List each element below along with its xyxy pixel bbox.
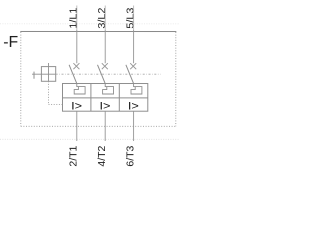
- trip unit box horizontal divider: [62, 97, 147, 99]
- svg-text:I>: I>: [99, 100, 110, 112]
- trip unit box outline: [62, 83, 147, 111]
- svg-text:5/L3: 5/L3: [125, 7, 136, 28]
- dashed enclosure left edge: [20, 32, 22, 126]
- svg-text:4/T2: 4/T2: [97, 145, 108, 166]
- wire pole2 bottom: [104, 111, 106, 141]
- svg-text:3/L2: 3/L2: [97, 7, 108, 28]
- mechanical linkage dash-dot line: [56, 73, 161, 75]
- wire pole3 top: [133, 6, 135, 30]
- faint grid line bottom: [0, 138, 180, 140]
- thermal overload element pole1: [74, 84, 85, 94]
- actuator square: [41, 67, 55, 82]
- breaker function cross pole3: [130, 63, 136, 69]
- trip unit box divider pole1/pole2: [90, 84, 92, 112]
- breaker function cross pole2: [102, 63, 108, 69]
- mechanism link wire: [32, 73, 41, 75]
- actuator trip link dotted horizontal: [48, 103, 62, 105]
- svg-text:I>: I>: [71, 100, 82, 112]
- wire pole1 bottom: [76, 111, 78, 141]
- dashed enclosure right edge: [175, 32, 177, 126]
- svg-text:2/T1: 2/T1: [69, 145, 80, 166]
- svg-text:-F: -F: [3, 34, 18, 51]
- dashed enclosure bottom edge: [21, 125, 176, 127]
- faint grid line top: [0, 23, 180, 25]
- mechanism link tick: [33, 72, 35, 79]
- contact blade pole3: [126, 65, 134, 84]
- thermal overload element pole2: [103, 84, 114, 94]
- dashed enclosure top edge: [20, 30, 176, 32]
- trip unit box divider pole2/pole3: [118, 84, 120, 112]
- svg-text:1/L1: 1/L1: [69, 7, 80, 28]
- contact blade pole1: [69, 65, 77, 84]
- wire pole3 bottom: [133, 111, 135, 141]
- actuator trip link dotted vertical: [47, 81, 49, 104]
- breaker function cross pole1: [73, 63, 79, 69]
- contact blade pole2: [98, 65, 106, 84]
- wire pole1 top: [76, 5, 78, 29]
- actuator cross vertical: [48, 63, 50, 81]
- actuator cross horizontal: [41, 73, 55, 75]
- svg-text:6/T3: 6/T3: [125, 145, 136, 166]
- thermal overload element pole3: [131, 84, 142, 94]
- svg-text:I>: I>: [128, 100, 139, 112]
- wire pole2 top: [104, 6, 106, 31]
